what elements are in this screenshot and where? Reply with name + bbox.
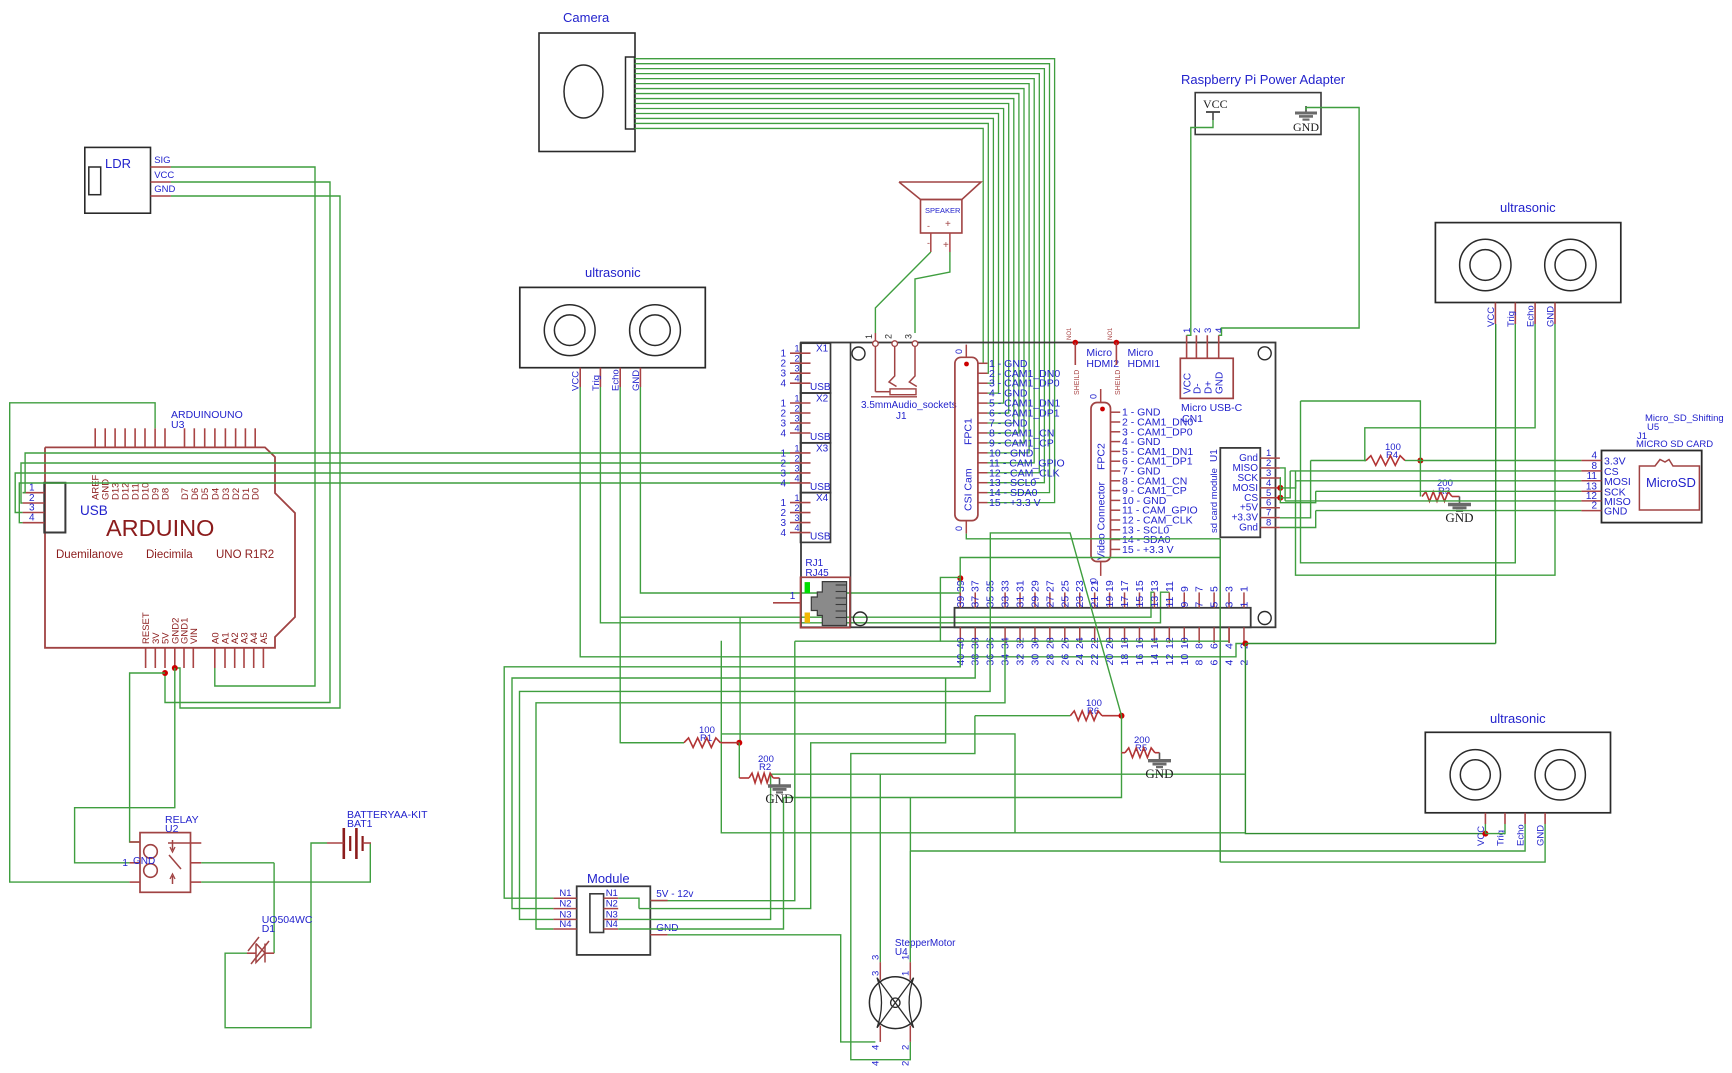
svg-text:U3: U3 [171,419,185,431]
svg-text:D-: D- [1192,383,1203,394]
USB-C pin 3 D+ [1206,335,1208,358]
FPC1 pin 13 [978,482,988,484]
wire ultrasonic2 GND [1296,324,1556,575]
svg-text:16: 16 [1134,637,1146,649]
GPIO pin 9 [1183,592,1185,607]
R4 junction dot [1417,458,1423,464]
U1 pin 6 +5V [1260,507,1280,509]
J1 pin 3 [912,341,918,347]
svg-text:3: 3 [1224,586,1236,592]
GPIO pin 17 [1124,592,1126,607]
svg-text:3: 3 [794,463,799,473]
svg-text:N4: N4 [606,919,618,930]
svg-text:UNO R1R2: UNO R1R2 [216,549,274,561]
GPIO header strip [955,608,1251,628]
GPIO pin 11 [1168,592,1170,607]
Pi USB connector X2 [801,393,831,443]
Pi USB connector X3 [801,443,831,493]
svg-text:GND: GND [765,791,793,806]
wire GPIO36 to module N3 [520,643,991,919]
svg-text:5: 5 [1209,602,1221,608]
FPC2 pin 7 [1111,470,1121,472]
ultrasonic sensor 2 (top right) [1435,223,1620,303]
FPC2 pin 3 [1111,431,1121,433]
Arduino pin 3V [154,648,156,668]
U1 pin 2 MISO [1260,467,1280,469]
GPIO pin 28 [1049,627,1051,643]
svg-text:X2: X2 [816,394,829,405]
FPC1 top pin 0 [965,345,967,358]
svg-text:16: 16 [1134,654,1146,666]
wire module inner N2 riser [639,678,946,909]
svg-text:2: 2 [794,354,799,364]
wire LDR SIG to Arduino A0 [171,167,315,686]
svg-text:-: - [927,238,930,248]
FPC2 pin 6 [1111,460,1121,462]
svg-text:D1: D1 [262,923,276,935]
svg-text:28: 28 [1044,654,1056,666]
wire ultrasonic2 Trig [1301,324,1516,563]
svg-text:4: 4 [780,528,786,539]
svg-text:USB: USB [810,432,831,443]
Pi X4 pin 1 [790,502,811,504]
svg-text:GND: GND [1293,120,1319,134]
svg-text:9: 9 [1179,586,1191,592]
wire Arduino USB4 to Pi X3 pin4 [19,483,790,523]
U1 pin 3 SCK [1260,477,1280,479]
wire ultrasonic2 VCC down to GPIO2 row [1495,324,1497,644]
svg-text:23: 23 [1074,596,1086,608]
ultrasonic1 pin GND [639,368,641,387]
junction dot GPIO39 [957,575,963,581]
wire SD 3.3V row [1311,460,1366,462]
wire Arduino USB2 to Pi X3 pin2 [21,463,790,503]
svg-text:2: 2 [1238,660,1250,666]
svg-text:SIG: SIG [154,155,170,166]
Arduino pin D7 [184,428,186,447]
Arduino Uno U3 body [45,447,295,647]
svg-text:37: 37 [970,580,982,592]
ground below R3 [1459,497,1461,505]
wire FPC1 bottom zig [966,534,1220,539]
svg-text:13: 13 [1149,580,1161,592]
module inner pin N1 [604,897,619,899]
FPC2 pin 4 [1111,441,1121,443]
svg-text:4: 4 [780,478,786,489]
FPC1 bottom pin 0 [965,521,967,534]
relay pin NO [191,842,202,844]
wire adapter VCC to USB-C pin1 [1187,120,1213,335]
FPC1 pin 10 [978,452,988,454]
wire module 5V-12v stub [649,900,651,902]
FPC2 pin 2 [1111,421,1121,423]
svg-text:9: 9 [1179,602,1191,608]
wire ultrasonic1 Trig to GPIO11 [600,387,1169,623]
GPIO pin 30 [1034,627,1036,643]
wire ultrasonic3 GND row [1220,824,1545,862]
GPIO pin 31 [1019,592,1021,607]
GND symbol in adapter [1305,106,1307,113]
GPIO pin 5 [1213,592,1215,607]
GPIO pin 36 [989,627,991,643]
svg-text:11: 11 [1587,471,1598,482]
wire R1 junction riser to Echo row [739,617,741,743]
GPIO pin 24 [1079,627,1081,643]
svg-text:3: 3 [794,364,799,374]
stepper pin 4 [879,1026,881,1042]
wire SD CS row [1290,470,1581,472]
svg-text:2: 2 [794,503,799,513]
svg-text:1: 1 [1238,602,1250,608]
svg-text:D+: D+ [1203,381,1214,394]
relay pin coil+ [130,841,140,843]
Arduino pin A2 [234,648,236,668]
svg-text:X4: X4 [816,493,829,504]
ground below R2 [779,778,781,786]
Pi X4 pin 2 [790,512,811,514]
RJ45 connector RJ1 [801,577,850,627]
ultrasonic sensor 1 [520,287,706,367]
wire battery left down [225,843,327,1028]
svg-text:11: 11 [1164,581,1176,592]
Pi mounting hole bottom-right [1258,612,1271,625]
Arduino pin A0 [214,648,216,668]
svg-text:U2: U2 [165,823,179,835]
svg-text:sd card module: sd card module [1209,468,1220,533]
svg-text:Module: Module [587,871,630,886]
relay pin coil- [130,881,140,883]
junction dot U1 MOSI [1277,485,1283,491]
Arduino USB connector [44,483,65,533]
svg-text:31: 31 [1015,596,1027,608]
USB-C pin 4 GND [1218,335,1220,358]
wire GPIO4 to module 5V-12v [940,640,1229,642]
svg-text:USB: USB [80,503,108,518]
svg-text:4: 4 [780,429,786,440]
svg-text:Echo: Echo [1526,305,1537,327]
Pi mounting hole top-right [1258,347,1271,360]
svg-text:GND: GND [133,856,155,867]
GPIO pin 40 [959,627,961,643]
GPIO pin 25 [1064,592,1066,607]
svg-text:SHEILD: SHEILD [1074,370,1081,395]
wire LDR GND to Arduino GND2 [171,196,340,708]
R6 junction dot [1119,713,1125,719]
stepper pin 2 [909,1026,911,1042]
wire Arduino USB1 to Pi X3 pin1 [23,453,790,493]
battery lead right [363,842,371,844]
svg-text:SHEILD: SHEILD [1115,370,1122,395]
relay switch [172,840,174,850]
diode lead right [265,952,274,954]
wire U1 MOSI jog [1280,481,1295,488]
FPC1 pin 2 [978,372,988,374]
svg-text:5V - 12v: 5V - 12v [656,889,693,900]
R1 junction dot [736,740,742,746]
wire Arduino USB3 to Pi X3 pin3 [15,473,790,513]
Arduino pin AREF [94,428,96,447]
svg-text:MICRO SD CARD: MICRO SD CARD [1636,439,1713,450]
svg-text:Camera: Camera [563,10,610,25]
wire stepper pin3 riser [879,774,881,962]
U1 sd card module [1220,448,1260,537]
wire R4 top row [1301,401,1421,461]
svg-text:GND: GND [1215,372,1226,394]
svg-text:29: 29 [1029,580,1041,592]
FPC2 pin 11 [1111,509,1121,511]
Arduino pin D0 [254,428,256,447]
svg-text:17: 17 [1119,596,1131,608]
Pi X2 pin 4 [790,432,811,434]
GPIO pin 34 [1004,627,1006,643]
camera module [539,33,635,152]
Arduino pin D5 [204,428,206,447]
svg-text:GND: GND [1145,766,1173,781]
Micro HDMI2 pin [1073,340,1079,346]
wire GPIO40 to module N1 [504,643,960,898]
FPC1 pin 7 [978,422,988,424]
wire GPIO2 net [1245,643,1495,645]
svg-text:ARDUINO: ARDUINO [106,515,214,541]
svg-text:2: 2 [794,453,799,463]
svg-text:D6: D6 [190,488,201,500]
svg-text:27: 27 [1044,580,1056,592]
svg-text:33: 33 [1000,580,1012,592]
Pi X3 pin 3 [790,472,811,474]
svg-text:GND: GND [1546,306,1557,327]
FPC1 pin 1 [978,362,988,364]
svg-text:LDR: LDR [105,156,131,171]
svg-text:GND: GND [1445,510,1473,525]
svg-text:4: 4 [1224,643,1236,649]
FPC1 pin 3 [978,382,988,384]
svg-text:39: 39 [955,596,967,608]
svg-text:1: 1 [864,334,874,339]
USB-C pin 1 VCC [1186,335,1188,358]
stepper pin 3 [879,962,881,980]
MicroSD pin 12 MISO [1581,500,1601,502]
module inner pin N4 [604,928,619,930]
junction dot Arduino 5V [162,670,168,676]
svg-text:2: 2 [1591,501,1597,512]
ultrasonic3 pin VCC [1484,813,1486,824]
svg-text:12: 12 [1164,637,1176,649]
svg-text:3: 3 [794,513,799,523]
Arduino pin D4 [214,428,216,447]
wire U1 SCK drop [1280,478,1316,503]
Pi USB connector X4 [801,493,831,543]
svg-text:NO1: NO1 [1108,327,1114,340]
svg-text:GND: GND [1604,506,1628,518]
relay pin 1 GND [130,862,140,864]
FPC1 pin 12 [978,472,988,474]
Pi mounting hole top-left [852,347,865,360]
svg-text:4: 4 [794,424,799,434]
Pi X3 pin 2 [790,462,811,464]
relay U2 body [140,833,191,893]
J1 pin 1 [874,333,876,341]
wire ultrasonic2 Echo to R4 [1365,324,1535,461]
svg-text:N4: N4 [559,919,571,930]
Pi X1 pin 1 [790,352,811,354]
wire GPIO38 to module N2 [512,643,975,909]
U1 pin 8 Gnd [1260,527,1280,529]
svg-text:4: 4 [871,1061,882,1066]
stepper pin 1 [909,962,911,980]
wire ultrasonic1 Echo branch to GPIO13 [620,592,1154,617]
GPIO pin 2 [1243,627,1245,643]
svg-text:3: 3 [871,971,882,976]
Pi X2 pin 1 [790,402,811,404]
Arduino USB pin 1 [23,492,45,494]
GPIO pin 16 [1138,627,1140,643]
LDR pin VCC [151,181,171,183]
Arduino pin D10 [144,428,146,447]
svg-text:VCC: VCC [1203,97,1228,111]
svg-text:USB: USB [810,382,831,393]
svg-text:2: 2 [901,1061,912,1066]
wire module inner N4 riser [618,798,783,930]
svg-text:2: 2 [883,334,893,339]
svg-text:8: 8 [1194,643,1206,649]
svg-text:NO1: NO1 [1067,327,1073,340]
svg-text:15 - +3.3 V: 15 - +3.3 V [1122,544,1174,556]
GPIO pin 35 [989,592,991,607]
svg-text:GND: GND [154,184,175,195]
FPC1 pin 11 [978,462,988,464]
svg-text:24: 24 [1074,637,1086,649]
GPIO pin 1 [1243,592,1245,607]
ultrasonic3 pin GND [1544,813,1546,824]
Pi hole near RJ45 [853,612,867,626]
U1 pin 4 MOSI [1260,487,1280,489]
svg-text:29: 29 [1029,596,1041,608]
svg-text:ultrasonic: ultrasonic [1500,200,1556,215]
svg-text:32: 32 [1015,654,1027,666]
Arduino pin D2 [235,428,237,447]
wire ultrasonic1 GND to GPIO39 [640,387,960,593]
speaker pin - [930,233,932,252]
Pi X1 pin 4 [790,382,811,384]
svg-text:10: 10 [1179,637,1191,649]
ultrasonic1 pin Echo [619,368,621,387]
Arduino pin GND [104,428,106,447]
FPC2 pin 14 [1111,539,1121,541]
svg-text:0: 0 [954,526,964,531]
Arduino pin VIN [192,648,194,668]
wire 5V loop [721,641,1245,833]
svg-text:3: 3 [1224,602,1236,608]
svg-text:Duemilanove: Duemilanove [56,549,123,561]
svg-text:1: 1 [901,971,912,976]
Arduino pin A4 [253,648,255,668]
Pi X4 pin 3 [790,522,811,524]
svg-text:VCC: VCC [1486,307,1497,327]
FPC2 pin 8 [1111,480,1121,482]
relay pin COM [191,862,202,864]
svg-text:15: 15 [1134,580,1146,592]
U1 pin 5 CS [1260,497,1280,499]
svg-text:N2: N2 [606,899,618,910]
junction dot ultrasonic3 VCC [1482,831,1488,837]
ultrasonic2 pin Echo [1534,303,1536,325]
wire ultrasonic3 VCC stub [1484,824,1486,834]
svg-text:18: 18 [1119,654,1131,666]
svg-text:USB: USB [810,532,831,543]
LDR pin SIG [151,166,171,168]
module inner pin N2 [604,908,619,910]
MicroSD pin 13 SCK [1581,490,1601,492]
svg-text:1: 1 [794,344,799,354]
Pi X3 pin 1 [790,452,811,454]
wire module inner N3 riser [618,774,770,919]
wire relay COM row [201,862,274,864]
wire ultrasonic1 VCC [580,387,1245,657]
Arduino USB pin 4 [23,522,45,524]
wire SD MISO row [1285,500,1581,502]
FPC2 pin 5 [1111,450,1121,452]
FPC2 pin 12 [1111,519,1121,521]
wire stepper pin2 to R6 left net [851,716,975,1060]
svg-text:VCC: VCC [154,170,174,181]
svg-text:A5: A5 [259,632,270,644]
GPIO pin 32 [1019,627,1021,643]
wire row 774 to GPIO2 vertical [771,773,1246,775]
svg-text:ultrasonic: ultrasonic [1490,711,1546,726]
svg-text:18: 18 [1119,637,1131,649]
svg-text:HDMI2: HDMI2 [1086,358,1119,370]
Pi X2 pin 2 [790,412,811,414]
svg-text:17: 17 [1119,580,1131,592]
svg-text:21: 21 [1089,580,1101,592]
svg-text:7: 7 [1194,602,1206,608]
USB-C pin 2 D- [1195,335,1197,358]
module pin 5V-12v [650,900,667,902]
GPIO pin 6 [1213,627,1215,643]
module pin GND [650,934,667,936]
ultrasonic2 pin VCC [1494,303,1496,325]
svg-text:Gnd: Gnd [1239,523,1258,534]
svg-text:FPC1: FPC1 [963,418,975,445]
GPIO pin 21 [1094,592,1096,607]
ultrasonic3 pin Echo [1524,813,1526,824]
svg-text:RJ45: RJ45 [805,568,829,579]
wire relay NC to battery row [201,843,370,882]
svg-text:8: 8 [1266,518,1271,529]
svg-text:1: 1 [1238,586,1250,592]
FPC2 pin 9 [1111,490,1121,492]
FPC1 pin 6 [978,412,988,414]
wire adapter GND to USB-C pin4 [1219,108,1359,336]
svg-text:HDMI1: HDMI1 [1128,358,1161,370]
svg-text:14: 14 [1149,654,1161,666]
Arduino pin D8 [164,428,166,447]
Module box [577,886,651,955]
GPIO pin 8 [1198,627,1200,643]
Arduino pin D13 [114,428,116,447]
U1 pin 1 Gnd [1260,457,1280,459]
GPIO pin 39 [959,592,961,607]
wire speaker + to J1 pin3 [915,252,950,333]
svg-text:1: 1 [794,493,799,503]
svg-text:33: 33 [1000,596,1012,608]
ultrasonic2 pin GND [1554,303,1556,325]
svg-text:10: 10 [1179,654,1191,666]
svg-text:Diecimila: Diecimila [146,549,193,561]
wire ultrasonic3 Echo row [910,824,1525,851]
svg-text:19: 19 [1104,596,1116,608]
Arduino pin A3 [243,648,245,668]
